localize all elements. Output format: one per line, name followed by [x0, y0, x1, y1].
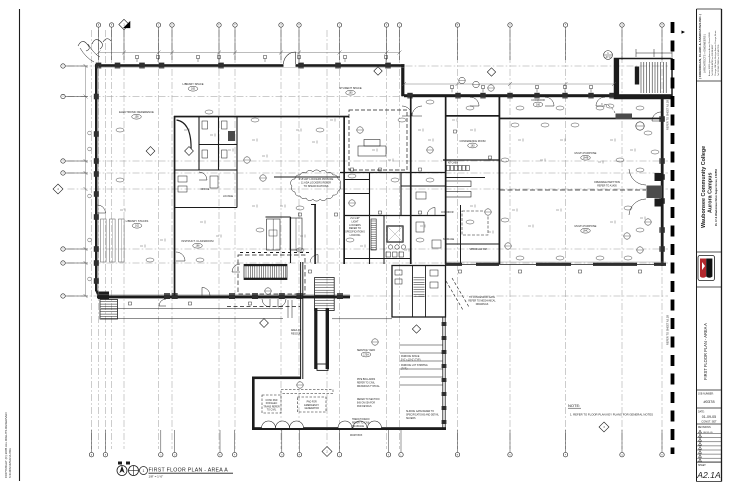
title block divider lines	[697, 80, 722, 82]
svg-text:DATE:: DATE:	[698, 411, 705, 414]
svg-text:#0378: #0378	[703, 399, 715, 404]
svg-text:168: 168	[196, 245, 201, 248]
svg-text:158: 158	[135, 116, 140, 119]
svg-text:PAD FOR: PAD FOR	[307, 401, 317, 404]
svg-text:TRENCH DRAIN: TRENCH DRAIN	[352, 418, 370, 421]
svg-text:MULTI-PURPOSE: MULTI-PURPOSE	[575, 224, 597, 228]
wall: right exterior	[661, 99, 664, 267]
landscape curls near entry top-left	[78, 41, 89, 51]
svg-text:PIPE BOLLARDS: PIPE BOLLARDS	[357, 378, 376, 381]
svg-text:5: 5	[63, 249, 64, 251]
fixtures in toilet rooms upper-left	[202, 121, 208, 129]
keynote squares below bottom walls	[129, 302, 132, 305]
svg-text:3: 3	[63, 161, 64, 163]
service ramp walls (dark bars)	[314, 308, 317, 369]
svg-text:INSTRUCT. CLASSROOM: INSTRUCT. CLASSROOM	[182, 239, 215, 243]
svg-text:9'-0" x 19'-0" (TYP): 9'-0" x 19'-0" (TYP)	[401, 359, 421, 361]
wall: lockers corner	[266, 216, 291, 218]
svg-text:1: 1	[143, 469, 145, 473]
stair treads SE block	[414, 277, 425, 279]
svg-text:PAD DETAILS: PAD DETAILS	[357, 405, 372, 408]
drive edge line east of service stair	[332, 318, 392, 320]
svg-text:| CORDOGAN, CLARK & ASSOCIATES: | CORDOGAN, CLARK & ASSOCIATES INC. |	[698, 14, 702, 79]
dashed rail box around commons open stair	[238, 255, 305, 294]
curved wall at electronic reference	[177, 120, 192, 151]
svg-text:TO CIVIL: TO CIVIL	[267, 410, 277, 412]
wall: lockers area top	[274, 176, 340, 178]
svg-text:DRAWINGS: DRAWINGS	[476, 303, 489, 306]
left grid bubbles column	[65, 65, 88, 67]
bollard strip (dashed)	[281, 390, 333, 394]
svg-text:L: L	[401, 454, 402, 456]
exterior stair bottom-left (hatched)	[100, 300, 118, 320]
wall: interior horizontal below library space	[174, 116, 349, 118]
svg-text:166: 166	[536, 103, 541, 106]
svg-text:LIBRARY SPACE: LIBRARY SPACE	[182, 82, 203, 86]
svg-text:SHEET:: SHEET:	[698, 465, 706, 467]
top grid diamond key	[123, 30, 125, 60]
svg-text:F: F	[234, 454, 235, 456]
wall: top exterior (library wing)	[95, 64, 404, 67]
keynote squares along corridor wall	[451, 86, 454, 89]
sheet left border line	[19, 9, 21, 481]
walls: SE room block (receiving)	[392, 266, 446, 318]
wall cavity line above library bottom wall	[97, 294, 350, 296]
wall: step between wings	[401, 64, 404, 96]
svg-text:7: 7	[63, 296, 64, 298]
column blocks along top wall	[96, 63, 102, 69]
elevator shaft	[387, 226, 403, 242]
dimension line above top wall	[99, 52, 401, 54]
wall: kitchen south	[446, 177, 486, 179]
svg-text:CORRIDOR: CORRIDOR	[531, 99, 545, 102]
svg-text:1: 1	[63, 66, 64, 68]
wall: toilets north	[344, 215, 445, 217]
svg-text:SPECIFICATIONS AND DETAIL: SPECIFICATIONS AND DETAIL	[406, 413, 440, 416]
wall: corridor south (multi-purpose north)	[500, 118, 661, 120]
svg-text:CORRIDOR: CORRIDOR	[441, 212, 454, 214]
witness circles outside left wall	[88, 131, 92, 135]
svg-text:REVISIONS:: REVISIONS:	[698, 427, 712, 429]
arrowhead marker right of match line	[682, 31, 686, 34]
drawing title circle 1	[140, 467, 148, 475]
svg-text:MULTI-PURPOSE: MULTI-PURPOSE	[575, 151, 597, 155]
vertical column grid lines (dash-dot)	[91, 30, 93, 449]
wall: student print rooms	[369, 173, 371, 265]
svg-text:PARKING LOT STRIPING: PARKING LOT STRIPING	[401, 364, 428, 367]
tables in student space dashed area	[358, 146, 386, 156]
main entry door swing (top wall)	[284, 64, 296, 68]
column blocks along corridor top wall	[407, 93, 412, 99]
svg-text:Aurora Campus: Aurora Campus	[708, 173, 714, 213]
wall: conference room south	[443, 159, 499, 161]
wall cavity line above multipurpose south wall	[445, 261, 666, 263]
svg-text:CONST. SET: CONST. SET	[701, 420, 717, 424]
wall cavity line under corridor top wall	[404, 97, 616, 99]
svg-text:SLIDING GATE REFER TO: SLIDING GATE REFER TO	[406, 410, 434, 413]
shrub arcs at yard south wall	[262, 421, 276, 428]
entry walk lines below vestibule	[287, 300, 289, 318]
wall cavity line under top wall	[98, 67, 404, 69]
svg-text:FOR ELEC: FOR ELEC	[266, 403, 278, 405]
svg-text:FIRST FLOOR PLAN - AREA A: FIRST FLOOR PLAN - AREA A	[149, 467, 229, 473]
svg-text:ELECTRONIC REFERENCE: ELECTRONIC REFERENCE	[119, 110, 154, 114]
svg-text:SERVICE YARD: SERVICE YARD	[357, 349, 376, 352]
central exit stair treads	[315, 278, 335, 311]
svg-text:Chicago: 104 South Michigan A: Chicago: 104 South Michigan Avenue Chica…	[714, 31, 717, 76]
svg-text:SPRINKLER RM: SPRINKLER RM	[469, 249, 486, 251]
svg-text:CONFERENCE ROOM: CONFERENCE ROOM	[460, 140, 486, 143]
door swings at entry vestibule bottom	[262, 299, 270, 307]
dimension line above corridor wall	[404, 83, 614, 85]
college logo shield	[698, 256, 715, 281]
svg-text:FIRST FLOOR PLAN - AREA A: FIRST FLOOR PLAN - AREA A	[703, 323, 708, 380]
svg-text:162: 162	[135, 225, 140, 228]
wall: left exterior	[95, 64, 97, 291]
dashed servery outline	[462, 211, 488, 235]
svg-text:COPYRIGHT (C) 2005 ALL RIGHT: COPYRIGHT (C) 2005 ALL RIGHTS RESERVED	[4, 412, 8, 478]
svg-text:1/8" = 1'-0": 1/8" = 1'-0"	[149, 475, 164, 479]
svg-text:4: 4	[63, 173, 64, 175]
svg-text:KITCHEN: KITCHEN	[448, 163, 458, 165]
wall: commons east (vertical at x=344)	[343, 117, 345, 265]
svg-text:01-09-05: 01-09-05	[702, 415, 716, 419]
svg-text:CONC PAD: CONC PAD	[266, 399, 278, 402]
svg-text:SILVERS: SILVERS	[406, 418, 416, 420]
bottom diamond key right	[599, 422, 609, 432]
svg-text:L: L	[399, 25, 400, 27]
ramp end block	[317, 364, 328, 370]
library stacks shelving rows	[101, 219, 107, 262]
sidewalk lines below library wing	[101, 308, 283, 310]
service yard west wall	[252, 377, 255, 430]
servery counters	[446, 181, 471, 187]
keynote squares along top wall	[136, 56, 139, 59]
kitchen counter squares	[447, 166, 450, 171]
canopy dashed line below commons entry	[227, 306, 300, 308]
door arc corridor room	[427, 208, 435, 216]
diamond symbol insulation note 2	[185, 147, 194, 156]
detail callout circle 1/A7.4	[604, 51, 613, 60]
svg-text:TO CONCESSION GATE: TO CONCESSION GATE	[469, 296, 495, 299]
door swing library west	[98, 205, 106, 213]
fixtures in corridor rooms x=411-445	[416, 192, 426, 199]
floor tick row in commons	[240, 252, 312, 254]
service yard north wall	[252, 377, 301, 380]
wall: conference room north	[445, 115, 499, 117]
bottom grid diamond key	[322, 447, 332, 457]
extra callout ovals multipurpose area	[511, 123, 519, 127]
svg-text:WASH BOX: WASH BOX	[350, 434, 363, 437]
diamond callout below commons stair	[260, 319, 269, 328]
wall: multipurpose west	[499, 97, 501, 265]
left grid diamond key	[53, 184, 63, 194]
more fixtures office cluster	[178, 176, 187, 182]
svg-text:REFER TO A1405: REFER TO A1405	[597, 184, 617, 187]
callout circle by pocket	[636, 122, 644, 130]
match line (heavy dashed) right side	[671, 22, 675, 454]
svg-text:164B: 164B	[583, 157, 589, 160]
svg-text:2: 2	[63, 96, 64, 98]
svg-text:B-B ON 05A FOR: B-B ON 05A FOR	[357, 401, 375, 404]
column blocks along right wall	[659, 116, 664, 122]
door swing at library bottom wall	[159, 299, 166, 306]
door swing corridor 3	[596, 97, 605, 106]
wall: toilets west	[383, 216, 385, 265]
svg-text:S:\21000\21378\A21A.DWG: S:\21000\21378\A21A.DWG	[9, 448, 12, 478]
gate leaf arcs at yard south wall	[338, 421, 352, 428]
dimension ticks above stair tower	[636, 52, 672, 54]
svg-text:(TYP.): (TYP.)	[401, 368, 408, 370]
operable partition storage pocket east (dark)	[647, 186, 663, 199]
svg-text:TRANS REFER: TRANS REFER	[263, 405, 280, 408]
svg-text:Rt. 47 & Waubonsee Drive Su: Rt. 47 & Waubonsee Drive Sugar Grove, Il…	[715, 168, 718, 226]
commons open stair treads	[244, 264, 287, 279]
wall: toilets south	[344, 258, 411, 260]
svg-text:REFER TO CIVIL: REFER TO CIVIL	[357, 382, 376, 384]
svg-text:Tel: 630 896 4678 Fax: 630: Tel: 630 896 4678 Fax: 630 896 4987	[712, 45, 714, 76]
corridor door arcs library wing	[202, 287, 210, 295]
wall: corridor 161 east	[460, 205, 462, 264]
svg-text:Tel: 312 943 7300 Fax: 312: Tel: 312 943 7300 Fax: 312 943 7305	[718, 45, 720, 76]
vestibule double wall	[300, 262, 302, 379]
wall: toilets east	[410, 97, 412, 265]
wall: lobby east	[445, 97, 447, 265]
operable partition dashed line across multipurpose	[500, 189, 646, 191]
service yard south wall	[252, 427, 446, 430]
svg-text:163: 163	[471, 144, 476, 147]
column blocks along left wall	[94, 94, 99, 100]
dimension line left of building	[85, 66, 87, 296]
stair rails dark (commons stair)	[244, 264, 287, 266]
parking yard east fence	[442, 317, 444, 430]
wall: interior vertical at grid D (library)	[174, 116, 176, 296]
svg-text:OFFICE: OFFICE	[201, 188, 210, 191]
svg-text:175A: 175A	[363, 353, 369, 356]
title block outer lines	[696, 9, 698, 482]
svg-text:REFER TO SHEET A2.1B: REFER TO SHEET A2.1B	[666, 100, 670, 130]
svg-text:165: 165	[191, 88, 196, 91]
fixtures SE block	[395, 270, 402, 275]
svg-text:RESCUE: RESCUE	[291, 332, 301, 335]
svg-text:6: 6	[63, 263, 64, 265]
svg-text:REFER TO SHEET A2.1B: REFER TO SHEET A2.1B	[666, 315, 670, 345]
svg-text:F: F	[234, 25, 235, 27]
wall: left exterior bottom jog	[95, 290, 100, 295]
toilet fixtures	[388, 245, 392, 249]
wall: corridor top exterior (right wing)	[404, 94, 616, 97]
door swing right wall multipurpose	[652, 112, 661, 121]
diamond symbol near top wall	[374, 67, 382, 75]
door arcs at partition pocket	[629, 169, 646, 185]
canopy dashed slant at south entry	[446, 281, 463, 310]
svg-text:164C: 164C	[583, 230, 589, 233]
stair treads hatch (top right stair)	[640, 62, 642, 93]
door swing office cluster	[199, 172, 207, 180]
bottom grid bubbles row	[91, 430, 93, 452]
svg-text:EMERGENCY: EMERGENCY	[304, 405, 319, 407]
operable partition pocket on corridor wall	[616, 114, 633, 120]
door swing corridor 2	[545, 97, 554, 106]
svg-text:JOB NUMBER:: JOB NUMBER:	[698, 394, 714, 396]
diamond symbol insulation note 1	[146, 147, 155, 156]
door swing classroom	[176, 252, 185, 261]
diamond symbol SE	[412, 325, 420, 333]
svg-text:LOCKING: LOCKING	[350, 234, 361, 237]
locker column hatched	[371, 219, 376, 250]
svg-text:STUDENT SPACE: STUDENT SPACE	[339, 86, 362, 90]
svg-text:REFER TO SECTION: REFER TO SECTION	[357, 399, 380, 401]
svg-text:LOUNGE: LOUNGE	[223, 195, 234, 198]
door swing commons	[232, 264, 240, 272]
stair tower walls (top right)	[615, 59, 673, 99]
svg-text:A2.1A: A2.1A	[696, 470, 721, 480]
top grid bubbles row	[98, 27, 100, 60]
svg-text:| ARCHITECTS + ENGINEERS: | ARCHITECTS + ENGINEERS |	[703, 34, 707, 73]
wall: vestibule west	[314, 204, 316, 264]
dashed future-area rectangle (student space)	[349, 110, 407, 170]
svg-text:GENERATOR: GENERATOR	[305, 407, 320, 410]
svg-text:LIBRARY STACKS: LIBRARY STACKS	[126, 219, 149, 223]
svg-text:1. REFER TO FLOOR PLAN KEY PL: 1. REFER TO FLOOR PLAN KEY PLANS FOR GEN…	[570, 413, 653, 417]
walls: small rooms cluster upper-left	[198, 117, 200, 170]
svg-text:UM 01-05: UM 01-05	[703, 432, 713, 434]
wall: bottom exterior (library wing)	[97, 295, 350, 298]
svg-text:11 ADA LOCKERS REFER: 11 ADA LOCKERS REFER	[301, 182, 331, 185]
wall: multipurpose bottom (south) with openings	[445, 263, 666, 265]
column blocks along library bottom wall	[102, 293, 108, 299]
transformer pad (dashed)	[262, 395, 281, 413]
entry walk curves top-left	[80, 48, 94, 62]
svg-text:DRAWINGS TYPICAL: DRAWINGS TYPICAL	[357, 385, 380, 388]
wall cavity line inside left wall	[97, 66, 99, 294]
svg-text:A7.4: A7.4	[606, 56, 612, 59]
svg-text:5'x5'x48" LOCKERS PROVIDE: 5'x5'x48" LOCKERS PROVIDE	[299, 178, 334, 181]
wall: corridor south of student space	[340, 172, 445, 174]
small callout ovals scattered	[205, 110, 213, 114]
locker bank furniture 2	[290, 218, 302, 250]
keynote squares in middle cluster	[351, 168, 354, 171]
drawing title symbols (north arrow etc.)	[117, 466, 127, 476]
corner block bottom-left	[98, 292, 109, 300]
door swing corridor 1	[470, 97, 479, 106]
svg-text:Aurora: 960 Ridgeway Avenue: Aurora: 960 Ridgeway Avenue Aurora, Illi…	[708, 32, 711, 76]
generator pad (dashed)	[298, 397, 327, 412]
callout circles scattered	[459, 77, 465, 83]
diamond symbol corridor	[487, 68, 495, 76]
svg-text:REFER TO MECHANICAL: REFER TO MECHANICAL	[468, 299, 496, 302]
svg-text:STORAGE: STORAGE	[443, 238, 455, 241]
double door at lobby top	[402, 106, 412, 116]
svg-text:DRAINAGE: DRAINAGE	[352, 425, 364, 428]
svg-text:REFER TO CIVIL: REFER TO CIVIL	[352, 422, 371, 424]
parking stripes	[400, 344, 443, 346]
svg-text:NOTE:: NOTE:	[568, 403, 580, 408]
wall: jan-elec rooms	[400, 173, 402, 216]
svg-text:PARKING SPACE: PARKING SPACE	[401, 355, 420, 358]
fine scatter ticks for plan texture	[184, 129, 187, 131]
horizontal column grid lines (dash-dot)	[68, 65, 669, 67]
svg-text:TO SPECIFICATIONS: TO SPECIFICATIONS	[304, 185, 329, 188]
wall: storage south	[446, 243, 500, 245]
locker bank furniture 1	[267, 219, 281, 250]
svg-text:Waubonsee Community College: Waubonsee Community College	[701, 146, 707, 228]
revision cloud at lockers note	[291, 170, 341, 201]
svg-text:160: 160	[349, 92, 354, 95]
wall cavity line inside right wall	[659, 99, 661, 266]
